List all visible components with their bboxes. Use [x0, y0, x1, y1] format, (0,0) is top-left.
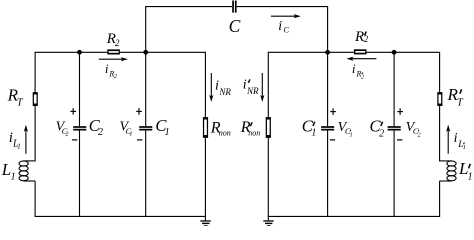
wire left circuit top: outer to R2 [35, 52, 107, 106]
polarity plus C1' [330, 111, 336, 113]
wire top rail right segment [237, 7, 328, 53]
inductor L1' [440, 161, 457, 181]
svg-text:1: 1 [165, 127, 170, 138]
capacitor C1' [321, 127, 334, 130]
svg-text:2: 2 [361, 75, 364, 81]
capacitor C1 [139, 127, 152, 130]
wire right circuit top: R'non branch to R2' [268, 52, 354, 117]
inductor L1 [19, 161, 35, 181]
polarity minus C2' [397, 139, 402, 141]
wire C2 branch lower [79, 131, 81, 217]
svg-text:i: i [215, 78, 219, 93]
svg-text:1: 1 [311, 128, 316, 139]
node B junction C1/top wire/coupling [143, 50, 148, 55]
svg-text:1: 1 [350, 133, 353, 139]
svg-text:C: C [229, 16, 241, 36]
polarity minus C2 [72, 139, 77, 141]
ground left [200, 221, 210, 226]
svg-text:NR: NR [246, 86, 259, 96]
resistor RT' [437, 92, 442, 106]
svg-text:i: i [352, 61, 356, 76]
svg-text:i: i [105, 61, 109, 76]
node A junction C2/top wire [77, 50, 82, 55]
resistor R2' [354, 49, 367, 54]
current arrow iL1 [24, 125, 28, 154]
svg-text:i: i [454, 131, 458, 146]
svg-text:1: 1 [11, 172, 16, 183]
wire left circuit top: R2 to Rnon branch [120, 52, 205, 117]
wire right bottom rail [268, 181, 439, 216]
current arrow iR2' [346, 57, 376, 61]
wire C1' branch upper [327, 52, 329, 126]
capacitor C [233, 1, 236, 13]
ground right [263, 221, 273, 226]
svg-text:NR: NR [218, 87, 231, 97]
polarity plus C1 [136, 110, 142, 112]
polarity minus C1 [137, 139, 142, 141]
resistor RT [33, 92, 38, 106]
svg-text:2: 2 [66, 132, 69, 138]
wire C1' branch lower [327, 131, 329, 217]
svg-text:non: non [219, 129, 231, 138]
svg-text:C: C [283, 24, 289, 34]
wire C1 branch upper [145, 52, 147, 126]
capacitor C2 [73, 127, 86, 130]
resistor R'non [266, 117, 271, 138]
wire C2 branch upper [79, 52, 81, 126]
wire C2' branch upper [393, 52, 395, 126]
wire RT to L1 [34, 106, 36, 162]
svg-text:2: 2 [98, 127, 103, 138]
svg-text:1: 1 [129, 132, 132, 138]
svg-text:1: 1 [463, 144, 466, 151]
wire RT' to L1' [439, 106, 441, 162]
wire right circuit top: R2' to outer [367, 52, 440, 106]
svg-text:i: i [278, 18, 282, 33]
svg-text:2: 2 [115, 38, 120, 48]
svg-text:2: 2 [379, 129, 384, 140]
wire C1 branch lower [145, 131, 147, 217]
wire R'non to ground [267, 138, 269, 221]
current arrow i'NR [260, 73, 264, 102]
polarity plus C2' [397, 111, 403, 113]
current arrow iL1' [446, 125, 450, 154]
svg-text:T: T [17, 98, 24, 109]
current arrow iR2 [99, 57, 128, 61]
wire top rail left segment [146, 7, 233, 53]
svg-text:2: 2 [114, 74, 117, 80]
wire C2' branch lower [393, 131, 395, 217]
svg-text:2: 2 [364, 34, 369, 44]
current arrow iNR [209, 73, 213, 102]
svg-text:1: 1 [17, 143, 21, 151]
wire Rnon to ground [204, 138, 206, 221]
resistor Rnon [203, 117, 208, 138]
node B' junction C2'/top wire [392, 50, 397, 55]
polarity plus C2 [70, 110, 76, 112]
wire left bottom rail [35, 181, 205, 216]
svg-text:1: 1 [468, 172, 473, 183]
svg-text:2: 2 [418, 133, 421, 139]
resistor R2 [107, 49, 120, 54]
capacitor C2' [388, 127, 401, 130]
svg-text:non: non [248, 128, 260, 137]
current arrow iC [271, 14, 301, 18]
node A' junction C1'/top wire/coupling [325, 50, 330, 55]
polarity minus C1' [330, 139, 335, 141]
svg-text:T: T [457, 97, 464, 108]
